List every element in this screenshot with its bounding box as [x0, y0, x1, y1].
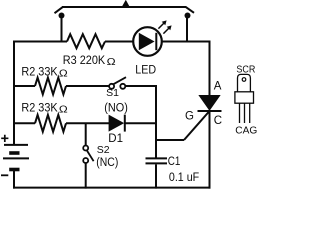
sensor arrow on top rail — [123, 1, 130, 7]
svg-text:(NC): (NC) — [96, 157, 118, 169]
battery B1 positive long plate — [4, 144, 28, 146]
label battery plus — [1, 135, 8, 142]
wire left rail — [13, 41, 15, 145]
wire bottom rail — [13, 187, 211, 189]
wire row4 (R2b row) left — [14, 122, 35, 124]
SCR package leg 1 — [239, 103, 241, 123]
wire gate horizontal — [155, 139, 184, 141]
capacitor C1 top plate — [146, 157, 168, 159]
battery B1 short plate 1 — [9, 151, 19, 155]
LED arrow 1 — [158, 20, 166, 28]
node dot right — [185, 13, 191, 19]
svg-text:D1: D1 — [108, 133, 123, 145]
svg-text:R2 33K: R2 33K — [21, 67, 58, 79]
resistor R2 (lower) — [35, 115, 66, 132]
wire row2 left — [14, 41, 67, 43]
SCR cathode bar — [198, 110, 222, 112]
wire S2 tap down — [85, 123, 87, 145]
wire battery to bottom rail — [13, 171, 15, 189]
wire row3 (R2a row) left — [14, 85, 35, 87]
SCR package body — [235, 92, 254, 103]
svg-text:Ω: Ω — [59, 104, 68, 115]
node dot left — [59, 13, 65, 19]
svg-text:S1: S1 — [106, 87, 119, 99]
svg-text:R3 220K: R3 220K — [63, 55, 106, 67]
SCR package tab — [238, 74, 251, 92]
LED cathode bar — [155, 33, 157, 50]
wire D1 to node column — [125, 122, 156, 124]
diode D1 bar — [124, 115, 126, 132]
switch S1 left contact — [109, 84, 114, 89]
svg-text:C: C — [214, 115, 222, 127]
wire C1 to bottom rail — [155, 164, 157, 188]
svg-text:S2: S2 — [97, 144, 110, 156]
switch S2 bottom contact — [83, 158, 88, 163]
SCR U1 anode triangle — [199, 96, 219, 111]
svg-text:G: G — [185, 111, 194, 123]
switch S1 blade — [113, 77, 126, 84]
switch blade left (open contact) — [55, 7, 64, 13]
wire right dot to row2 — [186, 16, 188, 42]
SCR package leg 3 — [249, 103, 251, 123]
wire S1 to node column — [125, 85, 157, 87]
resistor R3 — [67, 34, 105, 48]
wire top rail — [62, 6, 186, 8]
SCR package drawing — [235, 74, 254, 123]
wire S2 to bottom rail — [85, 163, 87, 189]
battery B1 short plate 2 — [9, 168, 19, 172]
svg-text:LED: LED — [135, 65, 156, 77]
LED D2 circle — [133, 27, 162, 56]
wire left dot to row2 — [61, 16, 63, 42]
switch S2 top contact — [83, 146, 88, 151]
SCR package leg 2 — [244, 103, 246, 123]
battery B1 long plate 2 — [3, 157, 29, 159]
wire R3 to LED — [105, 41, 134, 43]
capacitor C1 bottom plate — [146, 162, 168, 164]
label battery minus — [1, 174, 8, 176]
svg-text:0.1 uF: 0.1 uF — [169, 172, 199, 184]
switch S1 right contact — [120, 84, 125, 89]
switch blade right (open contact) — [186, 7, 195, 13]
svg-text:(NO): (NO) — [104, 103, 128, 115]
LED arrow 2 — [163, 25, 171, 33]
svg-text:R2 33K: R2 33K — [21, 103, 58, 115]
svg-text:CAG: CAG — [235, 125, 257, 137]
LED triangle — [139, 33, 155, 50]
svg-text:Ω: Ω — [107, 57, 116, 68]
svg-text:C1: C1 — [168, 156, 181, 168]
switch S2 blade — [87, 151, 94, 162]
svg-text:SCR: SCR — [236, 64, 255, 76]
SCR package mounting hole — [242, 78, 246, 82]
SCR gate wire diagonal — [184, 111, 210, 140]
wire right rail lower — [209, 111, 211, 189]
wire node column vertical — [155, 86, 157, 158]
wire R2 to S1 — [66, 85, 109, 87]
wire right rail upper — [209, 41, 211, 97]
wire R2 to D1 — [66, 122, 109, 124]
svg-text:Ω: Ω — [59, 68, 68, 79]
diode D1 triangle — [109, 115, 125, 132]
svg-text:A: A — [214, 81, 222, 93]
wire LED to right rail — [162, 41, 211, 43]
resistor R2 (upper) — [35, 78, 66, 95]
